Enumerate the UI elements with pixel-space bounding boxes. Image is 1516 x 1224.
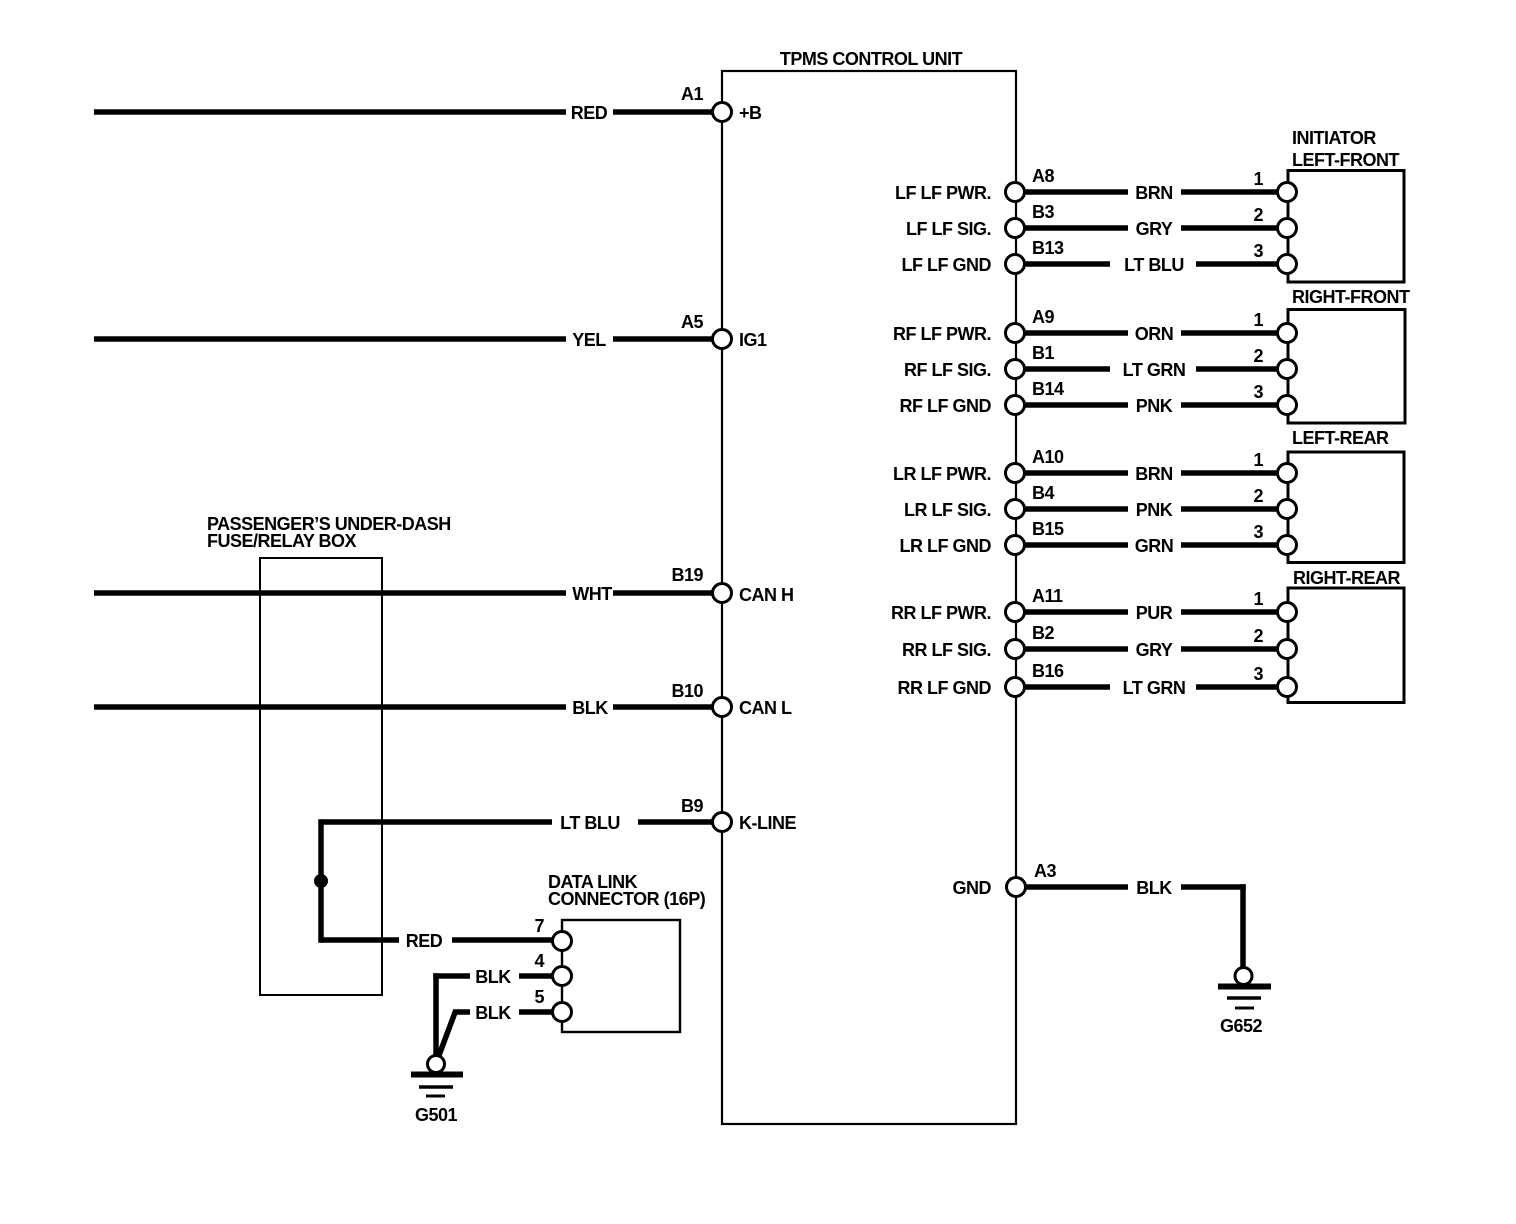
svg-text:A9: A9	[1032, 307, 1054, 327]
svg-text:B13: B13	[1032, 238, 1064, 258]
pin 3 (initiator LF)	[1278, 255, 1297, 274]
svg-text:TPMS CONTROL UNIT: TPMS CONTROL UNIT	[780, 49, 963, 69]
node B15 (LR LF GND)	[1006, 536, 1025, 555]
svg-text:1: 1	[1253, 589, 1263, 609]
svg-text:1: 1	[1253, 169, 1263, 189]
svg-text:GRY: GRY	[1136, 219, 1173, 239]
svg-text:A3: A3	[1034, 861, 1056, 881]
svg-text:GRN: GRN	[1135, 536, 1174, 556]
svg-text:K-LINE: K-LINE	[739, 813, 796, 833]
pin 4 (DLC)	[553, 967, 572, 986]
wire BRN (A8 to LF initiator pin 1)	[1024, 189, 1128, 195]
svg-text:B14: B14	[1032, 379, 1064, 399]
svg-text:3: 3	[1253, 664, 1263, 684]
svg-text:2: 2	[1253, 205, 1263, 225]
svg-text:LR LF PWR.: LR LF PWR.	[893, 464, 991, 484]
wire LT GRN (B1 to RF initiator pin 2)	[1024, 366, 1110, 372]
wire PNK (B4 to LR initiator pin 2)	[1024, 506, 1128, 512]
node B10 (CAN L pin)	[713, 698, 732, 717]
initiator right-front box	[1288, 310, 1405, 424]
pin 2 (initiator LR)	[1278, 500, 1297, 519]
pin 3 (initiator RR)	[1278, 678, 1297, 697]
svg-text:G501: G501	[415, 1105, 458, 1125]
wire LT GRN (B16 to RR initiator pin 3)	[1024, 684, 1110, 690]
node A5 (IG1 pin)	[713, 330, 732, 349]
svg-text:3: 3	[1253, 382, 1263, 402]
node B1 (RF LF SIG.)	[1006, 360, 1025, 379]
wire WHT (CAN H to B19)	[94, 590, 566, 596]
svg-text:LF LF GND: LF LF GND	[902, 255, 992, 275]
svg-text:BRN: BRN	[1135, 183, 1173, 203]
pin 1 (initiator LR)	[1278, 464, 1297, 483]
svg-text:LT BLU: LT BLU	[1124, 255, 1184, 275]
svg-text:CAN H: CAN H	[739, 585, 794, 605]
svg-text:LF LF SIG.: LF LF SIG.	[906, 219, 991, 239]
node A11 (RR LF PWR.)	[1006, 603, 1025, 622]
pin 2 (initiator RF)	[1278, 360, 1297, 379]
svg-text:BLK: BLK	[475, 1003, 511, 1023]
svg-text:B16: B16	[1032, 661, 1064, 681]
svg-text:LEFT-FRONT: LEFT-FRONT	[1292, 150, 1399, 170]
data link connector (16P) box	[562, 920, 680, 1032]
TPMS control unit box	[722, 71, 1016, 1124]
svg-text:ORN: ORN	[1135, 324, 1174, 344]
svg-text:YEL: YEL	[572, 330, 606, 350]
svg-text:LR LF GND: LR LF GND	[900, 536, 992, 556]
wire LT BLU (K-line to B9)	[321, 819, 552, 825]
initiator left-front box	[1288, 171, 1404, 283]
pin 2 (initiator LF)	[1278, 219, 1297, 238]
svg-text:BLK: BLK	[572, 698, 608, 718]
svg-text:RED: RED	[406, 931, 443, 951]
svg-text:WHT: WHT	[572, 584, 612, 604]
svg-text:BLK: BLK	[1136, 878, 1172, 898]
svg-text:2: 2	[1253, 346, 1263, 366]
svg-text:B9: B9	[681, 796, 703, 816]
svg-text:1: 1	[1253, 450, 1263, 470]
node B19 (CAN H pin)	[713, 584, 732, 603]
svg-text:3: 3	[1253, 522, 1263, 542]
svg-text:G652: G652	[1220, 1016, 1263, 1036]
pin 2 (initiator RR)	[1278, 640, 1297, 659]
svg-text:2: 2	[1253, 626, 1263, 646]
svg-text:RR LF PWR.: RR LF PWR.	[891, 603, 991, 623]
svg-text:PNK: PNK	[1136, 500, 1173, 520]
svg-text:B2: B2	[1032, 623, 1054, 643]
node A10 (LR LF PWR.)	[1006, 464, 1025, 483]
svg-text:PUR: PUR	[1136, 603, 1173, 623]
svg-text:2: 2	[1253, 486, 1263, 506]
svg-text:A11: A11	[1032, 586, 1063, 606]
svg-text:PNK: PNK	[1136, 396, 1173, 416]
node B4 (LR LF SIG.)	[1006, 500, 1025, 519]
junction (K-line / DLC branch)	[314, 874, 328, 888]
initiator right-rear box	[1288, 588, 1404, 703]
svg-text:RR LF SIG.: RR LF SIG.	[902, 640, 991, 660]
wire PNK (B14 to RF initiator pin 3)	[1024, 402, 1128, 408]
wire ORN (A9 to RF initiator pin 1)	[1024, 330, 1128, 336]
wire RED (battery feed to A1)	[94, 109, 566, 115]
svg-text:A5: A5	[681, 312, 703, 332]
svg-text:5: 5	[534, 987, 544, 1007]
node A1 (+B pin)	[713, 103, 732, 122]
wire BLK (CAN L to B10)	[94, 704, 566, 710]
svg-text:LT GRN: LT GRN	[1123, 678, 1186, 698]
svg-text:B10: B10	[671, 681, 703, 701]
pin 3 (initiator RF)	[1278, 396, 1297, 415]
wire BLK (A3 to ground G652)	[1025, 884, 1128, 890]
svg-text:LT GRN: LT GRN	[1123, 360, 1186, 380]
svg-text:+B: +B	[739, 103, 762, 123]
wire GRY (B2 to RR initiator pin 2)	[1024, 646, 1128, 652]
svg-text:RF LF PWR.: RF LF PWR.	[893, 324, 991, 344]
svg-text:LF LF PWR.: LF LF PWR.	[895, 183, 991, 203]
svg-text:RR LF GND: RR LF GND	[898, 678, 992, 698]
svg-text:A8: A8	[1032, 166, 1054, 186]
svg-text:RED: RED	[571, 103, 608, 123]
fuse/relay box (passenger's under-dash)	[260, 558, 382, 995]
wire PUR (A11 to RR initiator pin 1)	[1024, 609, 1128, 615]
svg-text:INITIATOR: INITIATOR	[1292, 128, 1376, 148]
wire (K-line branch down through fuse box)	[318, 819, 324, 942]
wire LT BLU (B13 to LF initiator pin 3)	[1024, 261, 1110, 267]
ground G652	[1235, 968, 1252, 985]
pin 1 (initiator RF)	[1278, 324, 1297, 343]
svg-text:A1: A1	[681, 84, 703, 104]
wire BRN (A10 to LR initiator pin 1)	[1024, 470, 1128, 476]
svg-text:RF LF GND: RF LF GND	[900, 396, 992, 416]
ground G501	[428, 1056, 445, 1073]
node B9 (K-LINE pin)	[713, 813, 732, 832]
pin 5 (DLC)	[553, 1003, 572, 1022]
pin 7 (DLC)	[553, 932, 572, 951]
node B16 (RR LF GND)	[1006, 678, 1025, 697]
svg-text:1: 1	[1253, 310, 1263, 330]
svg-text:LEFT-REAR: LEFT-REAR	[1292, 428, 1389, 448]
svg-text:B1: B1	[1032, 343, 1054, 363]
svg-text:IG1: IG1	[739, 330, 767, 350]
svg-text:BLK: BLK	[475, 967, 511, 987]
svg-text:GRY: GRY	[1136, 640, 1173, 660]
node B14 (RF LF GND)	[1006, 396, 1025, 415]
svg-text:4: 4	[534, 951, 544, 971]
wire YEL (ignition feed to A5)	[94, 336, 566, 342]
svg-text:B19: B19	[671, 565, 703, 585]
svg-text:A10: A10	[1032, 447, 1064, 467]
svg-text:B15: B15	[1032, 519, 1064, 539]
svg-text:LR LF SIG.: LR LF SIG.	[904, 500, 991, 520]
wire GRN (B15 to LR initiator pin 3)	[1024, 542, 1128, 548]
node A9 (RF LF PWR.)	[1006, 324, 1025, 343]
pin 1 (initiator LF)	[1278, 183, 1297, 202]
pin 3 (initiator LR)	[1278, 536, 1297, 555]
wire BLK (DLC pin 4 to ground)	[433, 973, 470, 979]
svg-text:CAN L: CAN L	[739, 698, 792, 718]
svg-text:GND: GND	[953, 878, 992, 898]
node B2 (RR LF SIG.)	[1006, 640, 1025, 659]
svg-text:RIGHT-REAR: RIGHT-REAR	[1293, 568, 1401, 588]
svg-text:BRN: BRN	[1135, 464, 1173, 484]
wire BLK (DLC pin 5 to ground)	[454, 1009, 470, 1015]
svg-text:FUSE/RELAY BOX: FUSE/RELAY BOX	[207, 531, 357, 551]
wire RED (to DLC pin 7)	[321, 937, 399, 943]
svg-text:3: 3	[1253, 241, 1263, 261]
svg-text:B3: B3	[1032, 202, 1054, 222]
svg-text:7: 7	[534, 916, 544, 936]
node A8 (LF LF PWR.)	[1006, 183, 1025, 202]
svg-text:B4: B4	[1032, 483, 1054, 503]
svg-text:RF LF SIG.: RF LF SIG.	[904, 360, 991, 380]
node A3 (GND pin)	[1007, 878, 1026, 897]
initiator left-rear box	[1288, 452, 1404, 563]
svg-text:LT BLU: LT BLU	[560, 813, 620, 833]
svg-text:CONNECTOR (16P): CONNECTOR (16P)	[548, 889, 706, 909]
node B13 (LF LF GND)	[1006, 255, 1025, 274]
wire GRY (B3 to LF initiator pin 2)	[1024, 225, 1128, 231]
pin 1 (initiator RR)	[1278, 603, 1297, 622]
node B3 (LF LF SIG.)	[1006, 219, 1025, 238]
svg-text:RIGHT-FRONT: RIGHT-FRONT	[1292, 287, 1410, 307]
